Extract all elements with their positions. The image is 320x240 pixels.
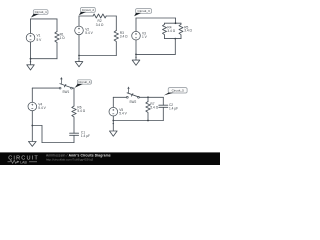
wire right upper lead (circuit 1) — [56, 19, 58, 32]
ground (circuit 5) — [110, 121, 118, 137]
wire feed drop top (circuit 3) — [175, 18, 177, 23]
resistor R1 — [55, 32, 65, 43]
wire top (circuit 3) — [136, 17, 176, 19]
svg-text:3.4 Ω: 3.4 Ω — [120, 35, 128, 39]
label tag Circuit_2 — [79, 8, 95, 16]
resistor R5 — [179, 23, 193, 38]
svg-text:1.4 µF: 1.4 µF — [81, 134, 90, 138]
svg-text:5.4 V: 5.4 V — [119, 112, 127, 116]
wire bottom rail of parallel pair (circuit 3) — [165, 38, 182, 40]
wire top-right (circuit 2) — [106, 15, 116, 17]
label tag Circuit_4 — [75, 80, 92, 88]
capacitor C1 — [70, 130, 90, 138]
svg-text:Circuit_4: Circuit_4 — [78, 80, 90, 84]
svg-text:http://circuitlab.com/7yb9lgq4: http://circuitlab.com/7yb9lgq4536q3 — [46, 157, 94, 161]
wire bottom (circuit 4) — [42, 142, 74, 144]
svg-text:SW1: SW1 — [62, 90, 69, 94]
capacitor C2 — [159, 103, 178, 111]
wire top-right (circuit 5) — [140, 96, 164, 98]
ground stem dot (circuit 5) — [113, 123, 114, 124]
wire top-left (circuit 4) — [32, 87, 59, 89]
resistor R3 — [114, 31, 128, 42]
voltage source V4 — [28, 102, 47, 111]
wire left lower (circuit 1) — [30, 42, 32, 59]
wire bottom (circuit 1) — [31, 58, 58, 60]
junction dot (circuit 4 ground node) — [31, 125, 33, 127]
ground (circuit 1) — [27, 59, 35, 70]
wire top-left (circuit 2) — [79, 15, 93, 17]
junction dot (circuit 5 ground node) — [112, 120, 114, 122]
wire left upper (circuit 4) — [31, 88, 33, 102]
wire step vertical (circuit 4) — [41, 126, 43, 143]
wire top-left (circuit 5) — [113, 96, 126, 98]
svg-text:5.4 V: 5.4 V — [38, 106, 46, 110]
label tag Circuit_5 — [164, 88, 187, 96]
voltage source V2 — [75, 26, 94, 35]
wire right lower lead (circuit 4) — [73, 135, 75, 142]
label tag Circuit_1 — [31, 10, 48, 18]
wire R7 lower lead (circuit 5) — [147, 113, 149, 121]
svg-text:5.4 V: 5.4 V — [85, 31, 93, 35]
wire left upper (circuit 5) — [112, 97, 114, 107]
resistor R7 — [146, 102, 159, 113]
ground (circuit 2) — [75, 56, 83, 67]
svg-text:1 Ω: 1 Ω — [60, 36, 66, 40]
footer background — [0, 152, 220, 165]
wire feed drop bottom (circuit 3) — [174, 39, 176, 55]
wire right lower lead (circuit 2) — [115, 42, 117, 56]
wire bottom (circuit 3) — [136, 53, 175, 55]
svg-text:Circuit_3: Circuit_3 — [137, 9, 149, 13]
junction dot top rail (circuit 3) — [175, 22, 177, 24]
wire left lower (circuit 5) — [112, 116, 114, 121]
wire top rail of parallel pair (circuit 3) — [165, 22, 182, 24]
ground (circuit 3) — [132, 54, 140, 65]
wire left upper (circuit 1) — [30, 19, 32, 34]
svg-text:LAB: LAB — [20, 160, 27, 164]
ground stem dot (circuit 2) — [78, 58, 79, 59]
wire left lower (circuit 3) — [135, 40, 137, 54]
junction dot bottom rail (circuit 3) — [174, 38, 176, 40]
wire right upper lead (circuit 5) — [162, 97, 164, 105]
voltage source V1 — [26, 33, 42, 42]
svg-text:3.4 Ω: 3.4 Ω — [167, 29, 175, 33]
wire left lower (circuit 4) — [31, 111, 33, 126]
junction dot top at R7 (circuit 5) — [147, 96, 149, 98]
junction dot (circuit 1 ground node) — [30, 58, 32, 60]
svg-text:Circuit_1: Circuit_1 — [35, 10, 47, 14]
wire right middle lead (circuit 4) — [73, 118, 75, 134]
wire left lower (circuit 2) — [78, 35, 80, 56]
switch SW1 — [59, 78, 72, 94]
svg-text:3.4 Ω: 3.4 Ω — [184, 29, 192, 33]
junction dot bottom at R7 (circuit 5) — [147, 120, 149, 122]
svg-text:5.4 Ω: 5.4 Ω — [77, 109, 85, 113]
voltage source V5 — [109, 107, 128, 116]
svg-text:Circuit_2: Circuit_2 — [82, 8, 94, 12]
wire right upper lead (circuit 2) — [115, 16, 117, 31]
voltage source V3 — [132, 31, 148, 40]
wire left upper (circuit 3) — [135, 18, 137, 31]
ground stem dot (circuit 3) — [135, 57, 136, 58]
switch SW2 — [126, 87, 139, 104]
ground stem dot (circuit 1) — [30, 61, 31, 62]
junction dot (circuit 2 ground node) — [78, 55, 80, 57]
wire bottom (circuit 2) — [79, 55, 116, 57]
resistor R2 — [93, 14, 106, 27]
CircuitLab logo — [8, 155, 39, 164]
wire left upper (circuit 2) — [78, 16, 80, 26]
svg-text:1.4 µF: 1.4 µF — [169, 106, 178, 110]
wire top (circuit 1) — [31, 18, 58, 20]
wire top-right (circuit 4) — [72, 87, 74, 89]
wire right upper lead (circuit 4) — [73, 88, 75, 106]
wire R7 upper lead (circuit 5) — [147, 97, 149, 101]
svg-text:5.4 Ω: 5.4 Ω — [150, 105, 158, 109]
wire right lower lead (circuit 5) — [162, 107, 164, 120]
wire right lower lead (circuit 1) — [56, 43, 58, 59]
label tag Circuit_3 — [134, 9, 151, 17]
wire bottom (circuit 5) — [113, 120, 163, 122]
resistor R4 — [163, 23, 176, 38]
resistor R6 — [72, 106, 86, 117]
svg-text:Circuit_5: Circuit_5 — [172, 89, 184, 93]
ground (circuit 4) — [29, 126, 37, 147]
junction dot (circuit 3 ground node) — [135, 54, 137, 56]
wire step horizontal (circuit 4) — [32, 125, 42, 127]
svg-text:SW2: SW2 — [129, 100, 136, 104]
svg-text:3.4 Ω: 3.4 Ω — [96, 23, 104, 27]
